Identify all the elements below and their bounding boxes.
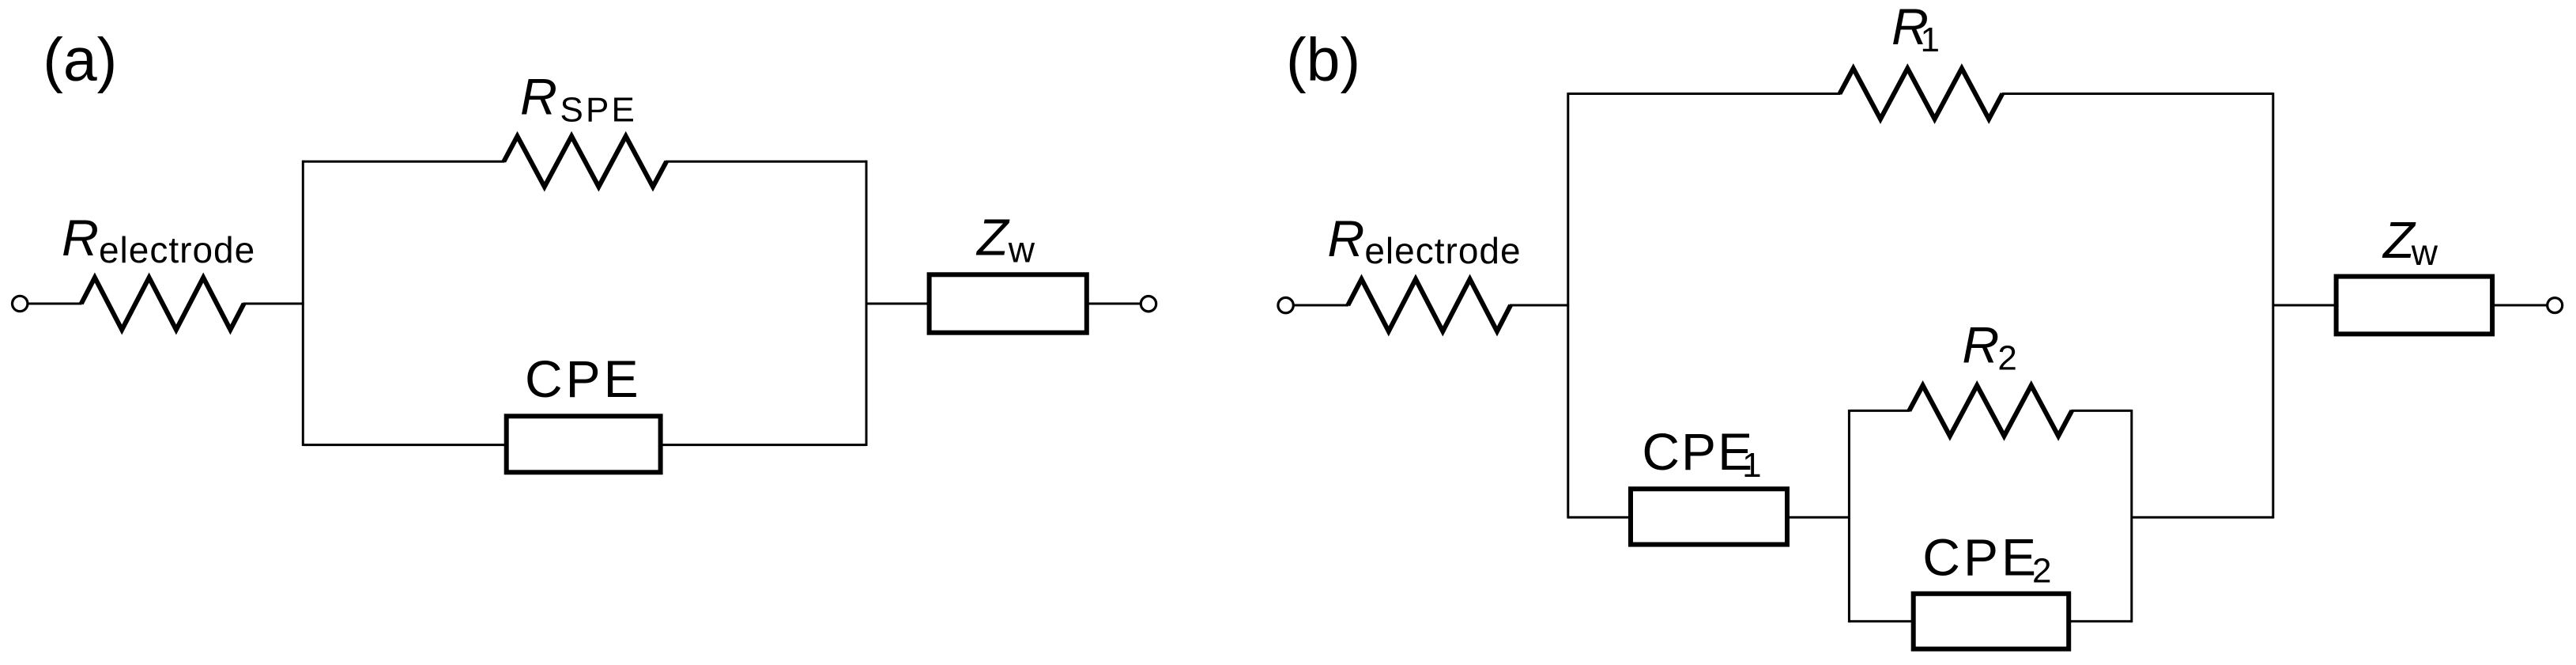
wire: to big loop (b) [1510, 304, 1569, 307]
wire: right vertical of big loop (b) [2272, 93, 2274, 519]
wire: left lead (b) [1294, 304, 1348, 307]
svg-text:CPE: CPE [525, 350, 642, 408]
node: left terminal (b) [1278, 297, 1293, 312]
wire: inner loop to right vertical (b) [2132, 516, 2273, 519]
wire: top rail left segment (b) [1568, 93, 1841, 95]
resistor Relectrode (b) [1348, 279, 1511, 331]
svg-text:Relectrode: Relectrode [1327, 210, 1521, 271]
wire: left vertical of inner loop (b) [1848, 410, 1850, 622]
capacitor CPE box (a) [507, 416, 661, 472]
wire: left lead (a) [28, 303, 82, 305]
wire: inner loop top rail right segment [2071, 410, 2132, 412]
wire: bottom rail of loop (a) [303, 444, 866, 446]
svg-text:CPE2: CPE2 [1922, 528, 2051, 591]
wire: top rail right segment (b) [2002, 93, 2273, 95]
capacitor CPE1 box [1631, 489, 1787, 544]
wire: top rail left segment (a) [303, 161, 504, 163]
wire: left vertical of big loop (b) [1567, 93, 1569, 519]
wire: output lead (a) [866, 303, 1140, 305]
wire: inner loop bottom rail [1849, 620, 2131, 622]
svg-text:R1: R1 [1891, 0, 1940, 59]
svg-text:(b): (b) [1286, 26, 1360, 94]
svg-text:Zw: Zw [975, 209, 1035, 270]
warburg element Zw box (b) [2337, 277, 2493, 334]
wire: inner loop top rail left segment [1849, 410, 1910, 412]
node: right terminal (a) [1141, 297, 1156, 312]
node: left terminal (a) [13, 296, 28, 311]
wire: right vertical of inner loop (b) [2130, 410, 2133, 622]
resistor Relectrode (a) [81, 278, 244, 330]
svg-text:RSPE: RSPE [520, 68, 637, 130]
wire: top rail right segment (a) [666, 161, 866, 163]
svg-text:R2: R2 [1962, 316, 2016, 378]
svg-text:CPE1: CPE1 [1642, 422, 1761, 485]
node: right terminal (b) [2548, 298, 2563, 313]
wire: output lead (b) [2273, 304, 2547, 307]
wire: right vertical of loop (a) [866, 161, 868, 446]
wire: left vertical of loop (a) [302, 161, 304, 446]
capacitor CPE2 box [1914, 594, 2069, 649]
wire: bottom branch left segment (b) [1568, 516, 1850, 519]
svg-text:Zw: Zw [2382, 211, 2438, 273]
resistor RSPE [504, 136, 666, 187]
svg-text:Relectrode: Relectrode [62, 209, 255, 270]
resistor R1 [1840, 69, 2003, 119]
warburg element Zw box (a) [930, 274, 1087, 332]
resistor R2 [1909, 385, 2072, 436]
svg-text:(a): (a) [43, 26, 117, 94]
wire: to parallel loop (a) [243, 303, 304, 305]
